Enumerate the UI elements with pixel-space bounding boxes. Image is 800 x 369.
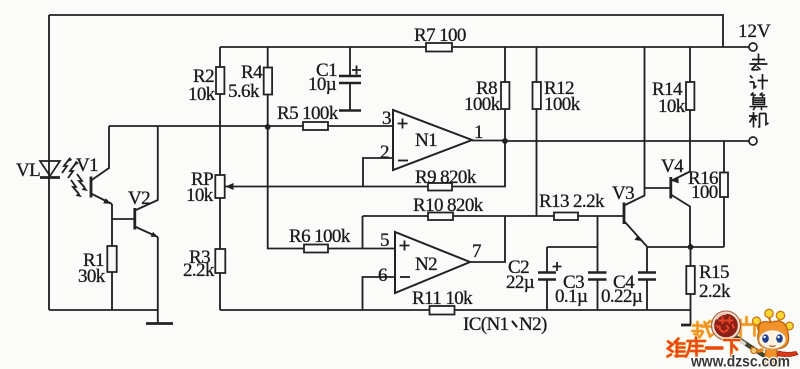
wire left rail upper	[48, 15, 50, 310]
svg-text:5.6k: 5.6k	[228, 81, 260, 102]
wire R6 to pin5	[328, 248, 395, 250]
label ji (compute)	[750, 74, 769, 90]
wire V4 base	[645, 187, 671, 189]
op-amp N2	[395, 232, 470, 293]
capacitor C4	[638, 247, 656, 310]
svg-text:N2): N2)	[519, 314, 547, 335]
resistor R12	[533, 82, 541, 109]
wire R10 left drop to pin5	[362, 216, 364, 249]
wire R16 top leg	[723, 141, 725, 173]
node N1 output	[502, 138, 508, 144]
wire N1 output	[472, 140, 505, 142]
wire RP to R3	[219, 198, 221, 249]
transistor V3	[624, 47, 647, 247]
svg-text:10k: 10k	[186, 185, 214, 206]
svg-text:0.1µ: 0.1µ	[555, 286, 588, 307]
svg-text:R4: R4	[241, 62, 263, 83]
label ji (machine)	[749, 112, 769, 128]
watermark	[668, 309, 799, 369]
svg-text:R13 2.2k: R13 2.2k	[539, 191, 605, 212]
svg-text:R5 100k: R5 100k	[277, 103, 339, 124]
svg-text:100k: 100k	[544, 94, 581, 115]
wire R16 bottom leg	[723, 197, 725, 247]
resistor R15	[686, 266, 695, 294]
wire R9 line with wiper arrow	[226, 186, 429, 188]
wire V2 emitter riser + ground stem	[157, 237, 159, 323]
svg-text:2.2k: 2.2k	[183, 260, 215, 281]
resistor R5	[303, 122, 328, 130]
wire R14 top	[689, 47, 691, 82]
VL light arrow 2	[68, 163, 76, 178]
wire N1 pin2 loop	[363, 158, 393, 187]
svg-text:10k: 10k	[188, 84, 216, 105]
resistor R13	[554, 213, 578, 221]
wire R1 bottom	[111, 272, 113, 310]
svg-text:30k: 30k	[78, 266, 106, 287]
svg-text:N2: N2	[415, 254, 437, 275]
node emitter junction	[688, 244, 694, 250]
wire R2 to RP	[219, 94, 221, 175]
transistor V4	[671, 172, 690, 248]
svg-text:N1: N1	[415, 130, 437, 151]
svg-text:100k: 100k	[464, 94, 501, 115]
wire R8 bottom	[504, 109, 506, 141]
potentiometer RP	[215, 175, 233, 198]
svg-text:10k: 10k	[658, 96, 686, 117]
wire ground rail B	[220, 309, 691, 311]
svg-text:V4: V4	[661, 156, 684, 177]
svg-text:1: 1	[474, 122, 483, 143]
capacitor C3	[588, 216, 607, 310]
label suan	[750, 93, 768, 111]
resistor R2	[216, 67, 224, 94]
svg-text:3: 3	[382, 108, 391, 129]
wire R4 down to R6	[268, 95, 304, 249]
capacitor C1	[339, 47, 361, 111]
resistor R10	[428, 213, 453, 221]
wire R8 top	[504, 47, 506, 82]
wire R3 bottom	[219, 273, 221, 310]
terminal output	[749, 137, 757, 145]
label qu (to)	[750, 54, 768, 70]
label IC(N1 N2)	[463, 314, 547, 335]
wire R12 bottom	[536, 109, 538, 216]
wire ground rail A	[49, 309, 158, 311]
svg-text:2: 2	[380, 142, 389, 163]
resistor R8	[501, 82, 509, 109]
svg-text:IC(N1: IC(N1	[463, 314, 509, 335]
wire R2 branch	[219, 47, 221, 67]
ground G1	[146, 322, 173, 325]
wire emitter node line	[647, 246, 724, 248]
resistor R3	[215, 249, 225, 273]
resistor R4	[264, 68, 272, 95]
svg-text:R15: R15	[699, 262, 729, 283]
svg-text:0.22µ: 0.22µ	[601, 286, 643, 307]
svg-text:V1: V1	[76, 155, 98, 176]
wire R12 top	[536, 47, 538, 82]
wire top rail	[49, 15, 723, 47]
svg-text:R6 100k: R6 100k	[289, 226, 351, 247]
svg-text:2.2k: 2.2k	[699, 281, 731, 302]
VL light arrow 1	[62, 158, 70, 173]
transistor V1	[91, 126, 112, 204]
wire R14 to V4 emitter	[689, 110, 691, 172]
transistor V2	[135, 126, 158, 237]
wire R9 to output node	[452, 141, 505, 187]
svg-text:R9 820k: R9 820k	[415, 167, 477, 188]
wire 12V rail	[220, 46, 749, 48]
svg-text:10µ: 10µ	[308, 74, 337, 95]
wire V2 base	[112, 218, 135, 220]
V1 light arrow 1	[77, 174, 85, 188]
resistor R14	[686, 82, 694, 110]
op-amp N1	[393, 110, 472, 170]
svg-text:R7 100: R7 100	[414, 25, 466, 46]
wire output line	[505, 140, 749, 142]
wire N2 pin6 loop	[363, 277, 396, 310]
capacitor C2	[538, 247, 598, 310]
ground G2	[681, 324, 700, 327]
svg-text:5: 5	[380, 230, 389, 251]
wire input line	[109, 125, 393, 127]
wire N2 pin7 riser	[470, 216, 505, 262]
svg-text:100: 100	[691, 182, 718, 203]
svg-text:V2: V2	[128, 188, 150, 209]
wire R10 R13 line	[363, 215, 624, 217]
svg-text:V3: V3	[612, 183, 634, 204]
resistor R7	[426, 43, 452, 52]
svg-text:12V: 12V	[738, 21, 771, 42]
svg-text:R10 820k: R10 820k	[413, 195, 484, 216]
wire R4 branch	[267, 47, 269, 68]
wire R15 top	[690, 247, 692, 266]
svg-text:VL: VL	[16, 160, 40, 181]
resistor R1	[107, 246, 116, 272]
wire V1 emitter to R1	[111, 204, 113, 246]
terminal 12V	[749, 43, 757, 51]
svg-text:6: 6	[378, 265, 387, 286]
svg-text:22µ: 22µ	[506, 272, 535, 293]
svg-text:www.dzsc.com: www.dzsc.com	[690, 354, 790, 369]
resistor R6	[304, 245, 328, 253]
resistor R11	[430, 306, 455, 315]
svg-text:R11 10k: R11 10k	[412, 288, 473, 309]
node input junction	[265, 124, 271, 130]
wire R15 to ground	[690, 294, 692, 325]
svg-text:7: 7	[472, 241, 481, 262]
resistor R9	[428, 183, 452, 191]
LED VL	[40, 161, 60, 178]
resistor R16	[720, 173, 728, 198]
V1 light arrow 2	[71, 180, 79, 194]
